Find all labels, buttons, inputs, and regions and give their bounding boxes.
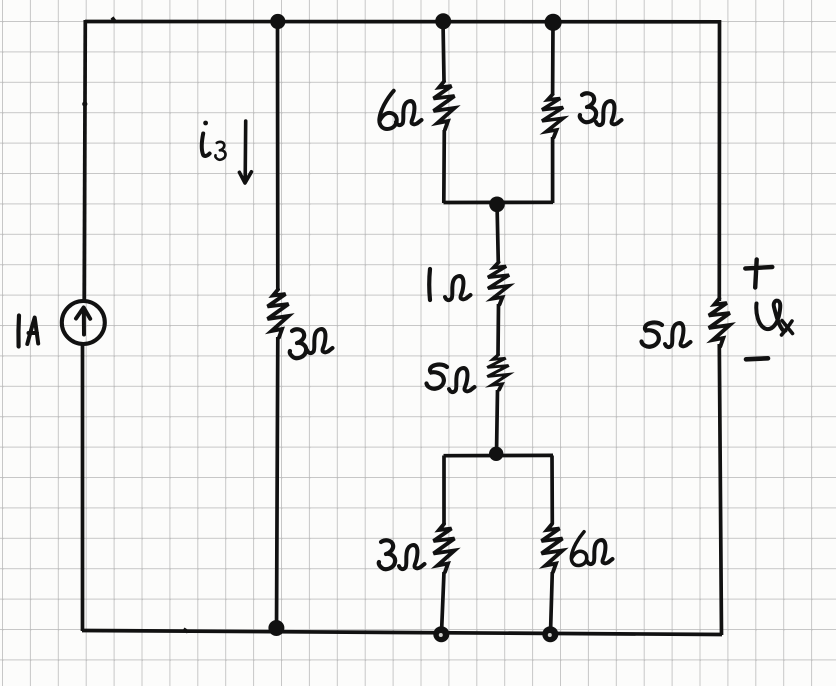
minus sign vx bbox=[746, 358, 768, 359]
node dot mid upper bbox=[489, 197, 505, 213]
resistor 6ohm bottom bbox=[542, 524, 563, 572]
3ohm bottom branch wire bbox=[442, 456, 445, 634]
label vx bbox=[756, 301, 792, 335]
label 6ohm bottom bbox=[571, 532, 612, 566]
label i3 bbox=[202, 121, 226, 160]
right wire bbox=[719, 20, 721, 635]
left wire lower bbox=[81, 344, 85, 631]
bottom bar joining lower pair bbox=[444, 454, 554, 458]
node dot top 6ohm bbox=[435, 13, 451, 29]
resistor 6ohm top bbox=[434, 82, 455, 130]
label 6ohm top bbox=[379, 91, 421, 129]
resistor 5ohm right bbox=[709, 299, 730, 347]
label 1A bbox=[18, 316, 38, 347]
node dot bottom 6ohm bbox=[542, 626, 558, 642]
node dot mid lower bbox=[489, 447, 503, 461]
node dot top branch2 bbox=[270, 14, 285, 29]
label 1ohm bbox=[429, 269, 470, 300]
label 5ohm mid bbox=[427, 365, 475, 393]
resistor 1ohm bbox=[488, 262, 509, 304]
left wire upper bbox=[82, 20, 87, 302]
resistor 3ohm top bbox=[542, 94, 563, 137]
3ohm top branch wire bbox=[551, 22, 555, 203]
plus sign vx bbox=[745, 260, 772, 288]
node dot bottom branch2 bbox=[268, 620, 284, 636]
branch wire i3 bbox=[277, 21, 278, 631]
label 3ohm top bbox=[580, 93, 622, 125]
resistor 5ohm mid bbox=[488, 355, 509, 390]
top bar joining 6ohm,3ohm bbox=[444, 200, 554, 204]
resistor 3ohm bottom bbox=[434, 524, 455, 572]
label 3ohm bottom bbox=[379, 540, 425, 569]
node dot bottom 3ohm bbox=[433, 626, 449, 642]
6ohm top branch wire bbox=[443, 21, 444, 203]
label 3ohm branch2 bbox=[290, 329, 333, 358]
arrow i3 bbox=[239, 121, 251, 183]
label 5ohm right bbox=[642, 323, 691, 348]
top wire bbox=[85, 18, 720, 23]
node dot top 3ohm bbox=[545, 14, 562, 31]
current source I1 1A bbox=[62, 301, 105, 344]
middle stem wire bbox=[497, 203, 499, 455]
6ohm bottom branch wire bbox=[551, 456, 553, 634]
resistor R 3ohm branch2 bbox=[268, 290, 289, 338]
bottom wire bbox=[82, 629, 722, 635]
